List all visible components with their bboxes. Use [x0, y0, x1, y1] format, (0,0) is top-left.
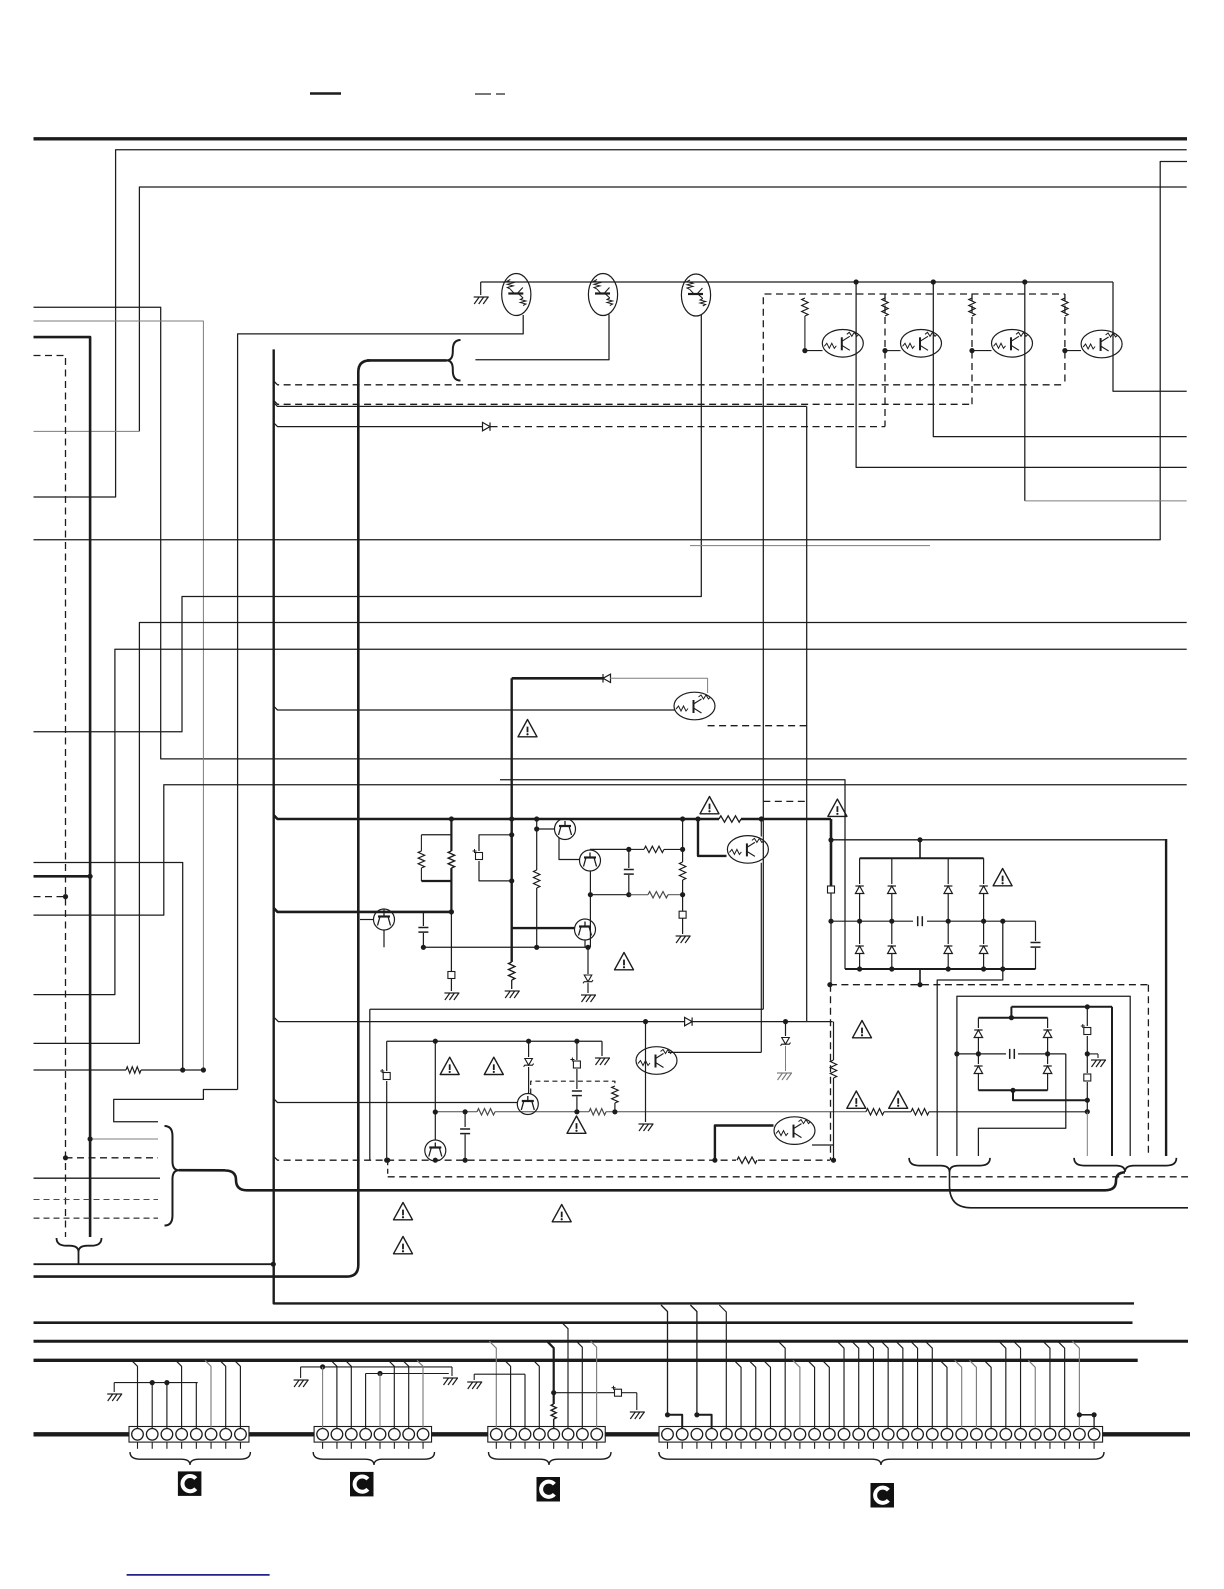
junction: [433, 1039, 438, 1044]
diode D6: [891, 921, 893, 944]
capacitor: [628, 849, 630, 868]
wire: [831, 839, 1166, 841]
diode D10: [1047, 1018, 1049, 1028]
wire: [500, 780, 845, 921]
wire: [831, 920, 913, 922]
junction: [463, 1158, 468, 1163]
connector CN3: [488, 1427, 605, 1443]
inductor: [551, 1404, 556, 1419]
diode: [603, 674, 611, 682]
wire: [844, 921, 846, 969]
capacitor: [422, 912, 424, 926]
wire: [587, 983, 589, 993]
junction: [150, 1380, 155, 1385]
wire: [682, 918, 684, 934]
wire: [310, 92, 341, 95]
warning symbol: [567, 1116, 586, 1133]
wire: [553, 1419, 555, 1428]
junction: [1000, 919, 1005, 924]
diode D4: [983, 858, 985, 884]
wire: [139, 187, 1186, 431]
wire col: [1086, 1007, 1088, 1026]
junction: [712, 1158, 717, 1163]
ground: [443, 1378, 458, 1385]
capacitor sym: [1084, 1074, 1091, 1081]
wire: [804, 316, 806, 351]
wire: [564, 818, 566, 821]
wire pin: [379, 1374, 381, 1429]
junction: [585, 945, 590, 950]
wire: [225, 1171, 1125, 1191]
wire: [645, 1022, 647, 1122]
wire: [741, 818, 831, 821]
wire pin: [763, 1360, 770, 1428]
junction: [1022, 279, 1027, 284]
wire pin: [999, 1341, 1006, 1428]
zener diode: [528, 1041, 530, 1057]
wire: [464, 1112, 466, 1127]
wire pin: [166, 1383, 168, 1428]
wire: [434, 1041, 436, 1140]
wire: [933, 282, 1186, 437]
wire: [34, 150, 1187, 497]
wire: [806, 406, 808, 1021]
wire pin: [969, 1360, 976, 1428]
warning symbol: [993, 869, 1012, 886]
wire: [629, 848, 644, 850]
wire: [927, 920, 1036, 922]
wire: [622, 1392, 637, 1394]
transistor Q16: [517, 1094, 538, 1115]
wire pin: [1058, 1341, 1065, 1428]
junction: [680, 847, 685, 852]
wire path: [978, 1054, 1065, 1156]
bus: [845, 968, 1036, 970]
wire: [34, 321, 204, 1070]
wire pin: [345, 1360, 351, 1428]
wire: [537, 828, 555, 830]
dashed box: [763, 294, 1065, 385]
warning symbol: [552, 1205, 571, 1222]
wire: [929, 1111, 1087, 1113]
wire: [301, 1366, 452, 1368]
wire pin: [911, 1341, 918, 1428]
wire: [1013, 1090, 1087, 1100]
junction: [509, 832, 514, 837]
junction: [88, 874, 93, 879]
transistor Q13: [727, 836, 768, 864]
wire pin: [925, 1341, 932, 1428]
wire pin: [403, 1360, 409, 1428]
wire: [919, 840, 921, 858]
junction: [931, 279, 936, 284]
diode: [685, 1017, 693, 1025]
wire: [590, 848, 629, 850]
wire: [238, 315, 524, 1090]
transistor Q12: [575, 919, 596, 940]
wire: [760, 819, 762, 837]
wire bridge: [668, 1415, 683, 1428]
dashed sub-box: [531, 1081, 615, 1093]
resistor: [477, 1109, 495, 1115]
diode D5: [859, 921, 861, 944]
brace: [447, 340, 461, 381]
brace: [130, 1452, 250, 1465]
wire: [833, 1022, 835, 1060]
resistor: [866, 1109, 884, 1115]
wire: [114, 1090, 238, 1122]
resistor: [589, 1109, 606, 1115]
symbol: [828, 886, 835, 893]
wire pin: [837, 1341, 844, 1428]
wire: [536, 819, 538, 870]
junction: [831, 1158, 836, 1163]
wire: [762, 385, 764, 1009]
wire: [450, 912, 452, 971]
wire: [34, 623, 1187, 1044]
warning symbol: [484, 1057, 503, 1074]
wire: [34, 356, 66, 1238]
wire: [473, 1374, 475, 1380]
brace: [57, 1238, 102, 1252]
wire: [450, 835, 452, 851]
wire: [450, 979, 452, 991]
wire: [698, 819, 727, 856]
ground: [505, 991, 520, 998]
ground: [630, 1412, 645, 1419]
brace: [313, 1452, 434, 1465]
wire: [559, 838, 580, 860]
capacitor: [572, 1091, 582, 1096]
dashed wire: [388, 1176, 1188, 1178]
junction: [969, 348, 974, 353]
junction: [180, 1067, 185, 1072]
wire pin: [1043, 1341, 1050, 1428]
wire: [450, 868, 452, 881]
diode D12: [1047, 1054, 1049, 1064]
junction: [1010, 1088, 1015, 1093]
wire: [1087, 1053, 1098, 1055]
wire: [511, 980, 513, 989]
wire pin: [562, 1323, 568, 1428]
junction: [1009, 1015, 1014, 1020]
dashed wire: [971, 294, 973, 404]
brace: [165, 1126, 180, 1226]
wire: [1111, 1007, 1113, 1156]
wire pin: [808, 1360, 815, 1428]
junction: [917, 837, 922, 842]
wire pin: [220, 1360, 226, 1428]
diode D7: [947, 921, 949, 944]
resistor: [969, 298, 975, 316]
dashed box edge: [1147, 985, 1149, 1156]
diode D8: [983, 921, 985, 944]
wire pin: [533, 1360, 539, 1428]
connector CN4: [659, 1427, 1103, 1443]
symbol: [679, 911, 686, 918]
zener branch: [785, 1022, 787, 1036]
warning symbol: [615, 953, 634, 970]
wire: [366, 1373, 449, 1375]
transistor Q3: [681, 274, 710, 316]
wire: [885, 350, 901, 352]
wire: [636, 1393, 638, 1410]
junction: [421, 945, 426, 950]
transistor Q7: [1081, 330, 1122, 358]
wire: [1065, 350, 1081, 352]
wire: [34, 863, 183, 1071]
wire: [1018, 1053, 1066, 1055]
wire pin: [322, 1367, 324, 1428]
resistor: [719, 816, 741, 822]
wire: [274, 403, 807, 407]
wire: [758, 1159, 830, 1161]
junction: [694, 1412, 699, 1417]
transistor Q5: [901, 330, 942, 358]
ground: [467, 1382, 482, 1389]
wire: [589, 848, 591, 851]
wire thick Vcc drop: [511, 678, 513, 962]
wire: [360, 919, 374, 921]
wire: [34, 1263, 274, 1265]
wire: [274, 706, 676, 710]
wire pin: [866, 1341, 873, 1428]
wire: [785, 1046, 787, 1071]
capacitor sym: [615, 1389, 622, 1396]
wire: [682, 819, 684, 862]
diode D3: [947, 858, 949, 884]
junction: [534, 826, 539, 831]
ground: [639, 1124, 654, 1131]
wire: [830, 819, 833, 886]
label C: [871, 1483, 895, 1508]
ground: [294, 1380, 309, 1387]
dashed wire: [708, 725, 807, 727]
wire: [1086, 1036, 1088, 1054]
wire pin: [661, 1305, 668, 1415]
resistor: [1062, 298, 1068, 316]
capacitor: [1035, 921, 1037, 941]
junction: [1062, 348, 1067, 353]
wire pin: [331, 1360, 337, 1428]
wire: [707, 678, 709, 693]
wire pin: [417, 1360, 423, 1428]
wire: [90, 1138, 158, 1140]
junction: [643, 1019, 648, 1024]
wire pin: [524, 1374, 526, 1428]
capacitor: [460, 1129, 470, 1134]
wire: [34, 1199, 159, 1201]
resistor: [802, 298, 808, 316]
wire: [475, 93, 491, 95]
wire: [1010, 1007, 1012, 1018]
wire: [421, 880, 451, 882]
wire: [34, 315, 702, 732]
junction: [1085, 1109, 1090, 1114]
wire pin: [1014, 1341, 1021, 1428]
resistor: [126, 1067, 141, 1073]
wire: [274, 1099, 518, 1103]
wire: [606, 1111, 866, 1113]
warning symbol: [394, 1203, 413, 1220]
wire: [113, 1383, 115, 1392]
diode D9: [977, 1018, 979, 1028]
junction: [828, 837, 833, 842]
wire: [275, 1018, 807, 1022]
wire: [554, 1392, 614, 1394]
wire pin: [234, 1360, 240, 1428]
junction: [665, 1412, 670, 1417]
junction: [802, 348, 807, 353]
wire: [884, 1111, 911, 1113]
warning symbol: [700, 797, 719, 814]
wire: [141, 1069, 204, 1071]
wire pin: [489, 1341, 496, 1428]
warning symbol: [440, 1057, 459, 1074]
dashed wire: [830, 985, 832, 1160]
wire: [274, 1156, 736, 1160]
transistor Q14: [636, 1047, 677, 1075]
wire pin: [749, 1360, 756, 1428]
wire: [451, 1367, 453, 1376]
diode D2: [891, 858, 893, 884]
wire: [589, 895, 591, 948]
wire: [760, 863, 762, 1053]
transistor Q4: [822, 330, 863, 358]
transistor Q6: [992, 330, 1033, 358]
junction: [1085, 1004, 1090, 1009]
bridge bottom: [978, 1089, 1047, 1091]
junction: [201, 1067, 206, 1072]
wire: [274, 908, 452, 912]
wire: [34, 1069, 127, 1071]
warning symbol: [853, 1021, 872, 1038]
resistor: [612, 1086, 618, 1103]
wire bridge: [697, 1415, 712, 1428]
wire: [300, 1367, 302, 1378]
dashed wire: [763, 800, 806, 802]
bus: [34, 1321, 1133, 1324]
brace: [1074, 1158, 1176, 1172]
junction: [433, 1109, 438, 1114]
wire pin: [955, 1360, 962, 1428]
wire: [34, 649, 1187, 994]
wire: [1113, 282, 1187, 391]
wire: [274, 349, 1134, 1303]
dashed box edge: [1064, 294, 1066, 385]
capacitor sym: [383, 1073, 390, 1080]
junction: [1000, 966, 1005, 971]
junction: [63, 1155, 68, 1160]
junction: [534, 945, 539, 950]
junction: [917, 982, 922, 987]
junction: [882, 348, 887, 353]
wire: [370, 1008, 764, 1010]
warning symbol: [518, 720, 537, 737]
wire pin: [778, 1341, 785, 1428]
wire pin: [365, 1374, 367, 1429]
wire: [610, 677, 708, 679]
bus top rule: [34, 137, 1188, 140]
wire: [78, 1252, 80, 1265]
ground: [1091, 1060, 1106, 1067]
wire pin: [984, 1360, 991, 1428]
wire: [590, 894, 628, 896]
transistor Q17: [774, 1117, 815, 1145]
junction: [854, 279, 859, 284]
resistor: [644, 846, 664, 852]
wire: [1011, 1006, 1112, 1008]
dashed wire: [387, 1160, 389, 1177]
wire pin: [896, 1341, 903, 1428]
resistor: [737, 1157, 757, 1163]
transistor Q15: [425, 1140, 446, 1161]
wire: [536, 888, 538, 947]
wire: [950, 1172, 1189, 1208]
wire pin: [505, 1360, 511, 1428]
ground: [595, 1058, 610, 1065]
junction: [1085, 1051, 1090, 1056]
wire: [274, 381, 1065, 385]
wire pin: [690, 1305, 697, 1415]
junction: [385, 1158, 390, 1163]
resistor: [534, 870, 540, 888]
wire: [387, 1040, 602, 1042]
junction: [954, 1051, 959, 1056]
wire: [34, 162, 1188, 540]
wire: [386, 1081, 388, 1160]
junction: [828, 919, 833, 924]
ground: [581, 995, 596, 1002]
connector CN1: [129, 1427, 249, 1443]
bridge top: [978, 1017, 1047, 1019]
wire: [475, 315, 609, 360]
capacitor: [918, 916, 923, 926]
wire: [434, 1159, 436, 1162]
wire: [491, 426, 886, 428]
wire: [1086, 1112, 1088, 1156]
wire pin: [1072, 1341, 1079, 1428]
wire bridge: [1079, 1414, 1094, 1416]
wire: [34, 1177, 161, 1179]
wire pin: [195, 1383, 197, 1428]
wire: [481, 281, 1113, 283]
dashed wire: [884, 294, 886, 427]
wire pin: [388, 1360, 394, 1428]
wire: [584, 940, 586, 947]
transistor Q1: [502, 274, 531, 316]
wire thick frame: [1165, 839, 1167, 1156]
warning symbol: [847, 1091, 866, 1108]
wire: [450, 881, 452, 912]
wire pin: [793, 1360, 800, 1428]
wire pin: [176, 1360, 182, 1428]
diode D1: [859, 858, 861, 884]
warning symbol: [394, 1237, 413, 1254]
wire pin: [205, 1360, 211, 1428]
wire: [367, 359, 447, 362]
wire pin: [576, 1341, 582, 1428]
junction: [827, 982, 832, 987]
wire: [668, 1051, 761, 1053]
junction dots on supply: [449, 816, 454, 821]
resistor: [882, 298, 888, 316]
resistor: [830, 1060, 836, 1078]
brace: [659, 1452, 1104, 1465]
wire: [274, 423, 482, 427]
wire: [114, 1382, 197, 1384]
wire: [435, 1111, 477, 1113]
